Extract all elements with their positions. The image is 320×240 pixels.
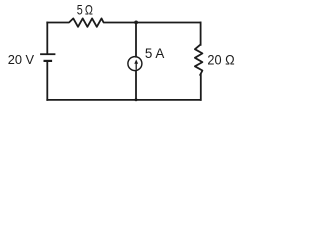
- svg-text:5 Ω: 5 Ω: [77, 3, 93, 18]
- svg-text:20 V: 20 V: [8, 52, 35, 67]
- svg-text:5 A: 5 A: [145, 46, 165, 61]
- svg-text:20 Ω: 20 Ω: [207, 52, 234, 67]
